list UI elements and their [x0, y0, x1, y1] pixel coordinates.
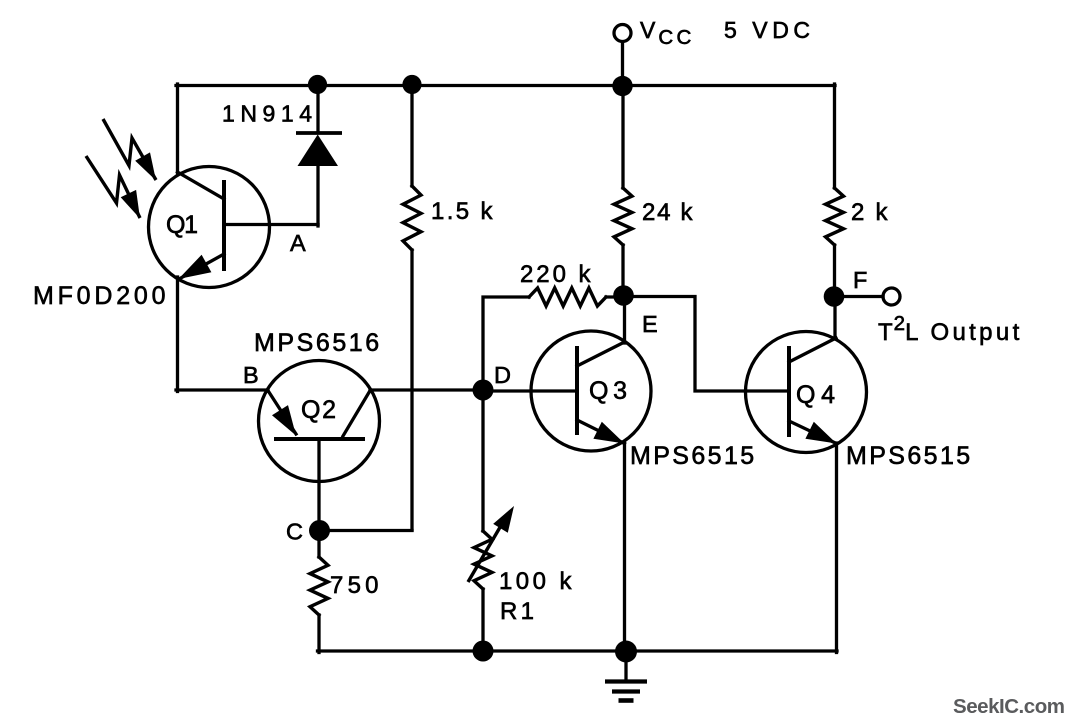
node E	[613, 285, 634, 306]
svg-text:Q2: Q2	[301, 396, 338, 424]
svg-text:1N914: 1N914	[222, 101, 314, 127]
wire: node D to Q3 base	[483, 389, 577, 392]
svg-text:MPS6515: MPS6515	[846, 442, 972, 470]
transistor Q3 MPS6515	[531, 331, 651, 451]
light arrow 2	[86, 156, 140, 219]
wire: Vcc stub	[621, 42, 624, 87]
svg-text:C: C	[286, 519, 303, 545]
svg-text:750: 750	[330, 572, 380, 599]
resistor 24k	[614, 86, 632, 296]
node: Vcc rail junction	[612, 76, 632, 96]
node D	[473, 380, 494, 401]
wire: Q2 collector to node D	[370, 388, 484, 391]
wire: B to Q2 emitter	[176, 388, 268, 391]
svg-text:Q4: Q4	[796, 381, 837, 409]
svg-text:MPS6516: MPS6516	[254, 329, 381, 357]
wire: top Vcc rail	[176, 84, 835, 87]
svg-text:MF0D200: MF0D200	[33, 282, 167, 310]
transistor Q2 MPS6516	[259, 361, 380, 482]
wire: Q2 base down to node C	[317, 439, 320, 531]
terminal: Vcc	[614, 25, 631, 42]
wire: Q1 base to node A	[224, 223, 318, 226]
svg-text:5 VDC: 5 VDC	[724, 17, 813, 43]
node: 1.5k top junction	[402, 75, 421, 94]
potentiometer R1 100k	[468, 506, 514, 651]
node: ground junction	[615, 641, 637, 663]
phototransistor Q1 MF0D200	[149, 167, 270, 288]
wire: F to output terminal	[834, 295, 883, 298]
wire: Q1 emitter down to B	[176, 277, 179, 392]
wire: Q1 collector riser	[176, 84, 179, 174]
wire: bottom rail	[318, 649, 838, 652]
ground	[605, 651, 647, 701]
transistor Q4 MPS6515	[746, 332, 867, 453]
svg-text:220 k: 220 k	[520, 261, 592, 288]
svg-text:F: F	[853, 267, 867, 293]
wire: Q4 emitter to bottom rail	[835, 443, 838, 653]
node: R1 bottom junction	[473, 641, 494, 662]
node C	[309, 520, 330, 541]
wire: Q3 emitter to ground rail	[623, 443, 626, 651]
diode D1 1N914	[296, 85, 342, 226]
wire: node E to Q3 collector	[623, 295, 626, 343]
resistor 750	[310, 530, 328, 653]
light arrow 1	[103, 119, 156, 181]
wire: F to Q4 collector	[833, 297, 836, 339]
svg-text:2 k: 2 k	[851, 199, 889, 226]
resistor 2k	[826, 84, 844, 297]
svg-text:A: A	[290, 230, 306, 256]
svg-text:R1: R1	[500, 598, 536, 625]
wire: node D down to R1	[481, 390, 484, 531]
svg-text:E: E	[642, 311, 658, 337]
svg-text:Q3: Q3	[589, 377, 629, 405]
svg-text:SeekIC.com: SeekIC.com	[953, 695, 1065, 718]
node: diode top junction	[308, 75, 327, 94]
svg-text:B: B	[243, 362, 259, 388]
svg-text:24 k: 24 k	[642, 199, 694, 226]
resistor 1.5k	[403, 85, 421, 530]
wire: node E to Q4 base	[624, 297, 790, 392]
svg-text:MPS6515: MPS6515	[630, 442, 756, 470]
wire: 220k to node E	[606, 295, 624, 298]
wire: node D up to 220k	[483, 297, 529, 390]
terminal: T2L output	[883, 288, 900, 305]
svg-text:100 k: 100 k	[499, 568, 573, 595]
svg-text:1.5 k: 1.5 k	[431, 198, 494, 225]
svg-text:D: D	[494, 362, 511, 388]
wire: node C to 1.5k bottom	[319, 529, 412, 532]
node F	[824, 286, 845, 307]
svg-text:Q1: Q1	[166, 211, 200, 239]
resistor 220k	[529, 288, 606, 306]
